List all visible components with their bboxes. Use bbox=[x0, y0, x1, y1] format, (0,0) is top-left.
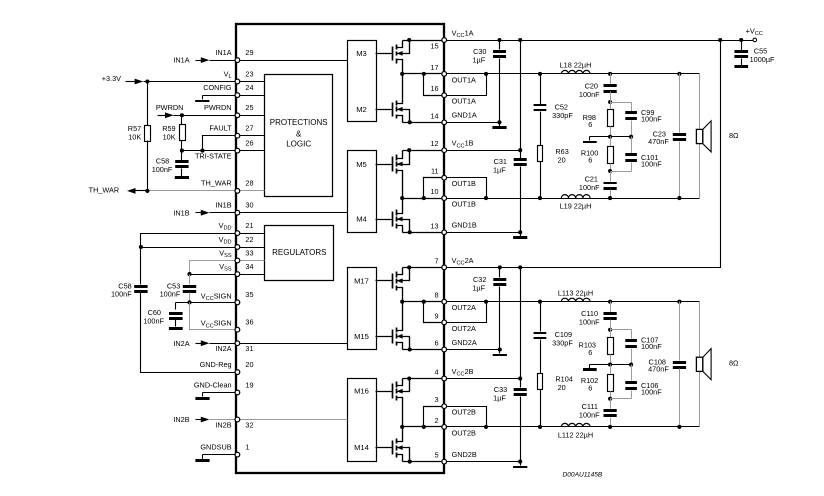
wire VCCSIGN pin36 loop bbox=[190, 303, 238, 330]
resistor R100 6 bbox=[581, 137, 614, 172]
pin 20 GND-Reg bbox=[200, 360, 254, 375]
junction chain upper node ch.1 bbox=[608, 100, 612, 104]
svg-text:GND2A: GND2A bbox=[452, 338, 477, 347]
resistor R59 10K bbox=[162, 116, 185, 151]
ground at Zobel mid node ch.2 bbox=[583, 365, 611, 372]
node IN1B input bbox=[173, 208, 237, 217]
svg-text:CONFIG: CONFIG bbox=[203, 83, 232, 92]
svg-text:IN2B: IN2B bbox=[215, 420, 231, 429]
pin 26 TRI-STATE bbox=[195, 138, 254, 160]
capacitor C23 470nF bbox=[648, 74, 686, 199]
svg-text:19: 19 bbox=[245, 380, 253, 389]
svg-text:PWRDN: PWRDN bbox=[204, 103, 232, 112]
capacitor C31 1µF bbox=[493, 151, 527, 233]
pin 1 GNDSUB bbox=[200, 442, 249, 457]
junction chain bottom OUT1B bbox=[608, 196, 612, 200]
svg-text:31: 31 bbox=[245, 344, 253, 353]
transistor M16 (high side ch.2B) bbox=[376, 376, 412, 426]
pin 27 FAULT bbox=[209, 124, 253, 139]
svg-text:14: 14 bbox=[430, 111, 438, 120]
wire IN2A pin31 to M17/M15 block bbox=[238, 343, 348, 345]
node TH_WAR output bbox=[89, 186, 148, 195]
svg-text:10K: 10K bbox=[128, 133, 141, 142]
speaker 8Ω ch.1 bbox=[696, 74, 739, 199]
junction VCC2A / VCC2B feed bbox=[518, 265, 522, 269]
svg-text:OUT1A: OUT1A bbox=[452, 97, 476, 106]
junction branch mid node ch.2 bbox=[629, 363, 633, 367]
svg-text:35: 35 bbox=[245, 290, 253, 299]
svg-text:IN2A: IN2A bbox=[173, 339, 189, 348]
junction OUT1A / snubber bbox=[538, 72, 542, 76]
svg-text:17: 17 bbox=[430, 63, 438, 72]
svg-text:34: 34 bbox=[245, 262, 253, 271]
pin 17 OUT1A bbox=[430, 63, 476, 84]
junction R59 / TRI-STATE wire bbox=[180, 149, 184, 153]
svg-text:M15: M15 bbox=[354, 332, 369, 341]
svg-text:D00AU1145B: D00AU1145B bbox=[563, 472, 603, 479]
svg-text:6: 6 bbox=[588, 156, 592, 165]
svg-text:REGULATORS: REGULATORS bbox=[272, 248, 326, 257]
svg-text:330pF: 330pF bbox=[552, 111, 573, 120]
svg-text:330pF: 330pF bbox=[552, 339, 573, 348]
svg-text:10: 10 bbox=[430, 187, 438, 196]
wire VDD pin21 loop bbox=[141, 234, 238, 248]
svg-text:4: 4 bbox=[435, 368, 439, 377]
wire OUT1B line bbox=[445, 198, 700, 200]
node IN2A input bbox=[173, 339, 237, 348]
svg-text:13: 13 bbox=[430, 221, 438, 230]
wire external loop pins 3/2 bbox=[445, 407, 487, 427]
junction loop 17/16 bbox=[484, 72, 488, 76]
transistor M4 (low side ch.1B) bbox=[376, 199, 412, 235]
svg-text:100nF: 100nF bbox=[111, 290, 132, 299]
svg-text:IN1A: IN1A bbox=[173, 56, 189, 65]
junction chain bottom OUT2B bbox=[608, 425, 612, 429]
svg-text:8Ω: 8Ω bbox=[729, 131, 739, 140]
svg-text:TRI-STATE: TRI-STATE bbox=[195, 151, 232, 160]
svg-text:3: 3 bbox=[435, 395, 439, 404]
gate driver block M16/M14 bbox=[348, 379, 377, 462]
wire mid node ch.2 bbox=[611, 364, 632, 366]
svg-text:8Ω: 8Ω bbox=[729, 359, 739, 368]
svg-text:23: 23 bbox=[245, 69, 253, 78]
wire VCCSIGN pin35 bbox=[176, 302, 238, 304]
wire VCC1A rail pin15 to +VCC bbox=[445, 40, 755, 42]
svg-text:6: 6 bbox=[588, 383, 592, 392]
resistor R104 20 (snubber) bbox=[538, 340, 573, 427]
wire pin22 VDD to regulators bbox=[238, 247, 265, 249]
pin 4 VCC2B bbox=[435, 367, 474, 381]
wire VCC2B feed bbox=[520, 268, 522, 379]
wire mid node ch.1 bbox=[611, 136, 632, 138]
capacitor C30 1µF bbox=[472, 41, 506, 123]
svg-text:100nF: 100nF bbox=[579, 411, 600, 420]
svg-text:8: 8 bbox=[435, 291, 439, 300]
capacitor C109 330pF (snubber) bbox=[534, 302, 574, 348]
svg-text:21: 21 bbox=[245, 221, 253, 230]
terminal +VCC bbox=[746, 26, 763, 41]
junction C53 / VCCSIGN pin35 bbox=[187, 300, 191, 304]
junction GND2B / C33 bbox=[518, 460, 522, 464]
junction OUT1B / C23 bbox=[677, 196, 681, 200]
junction chain lower node ch.1 bbox=[608, 169, 612, 173]
transistor M15 (low side ch.2A) bbox=[376, 302, 412, 352]
capacitor C32 1µF bbox=[472, 268, 506, 350]
wire GND2A ground stem bbox=[499, 350, 501, 354]
svg-text:OUT2A: OUT2A bbox=[452, 324, 476, 333]
inductor L113 22µH bbox=[558, 288, 593, 301]
junction VCC rail / C55 bbox=[739, 38, 743, 42]
svg-text:11: 11 bbox=[431, 167, 439, 176]
svg-text:6: 6 bbox=[588, 348, 592, 357]
svg-text:100nF: 100nF bbox=[143, 316, 164, 325]
svg-text:GND-Reg: GND-Reg bbox=[200, 360, 232, 369]
svg-text:33: 33 bbox=[245, 248, 253, 257]
ground at GND2A bbox=[493, 354, 507, 356]
svg-text:IN2B: IN2B bbox=[173, 415, 189, 424]
svg-text:OUT1A: OUT1A bbox=[452, 75, 476, 84]
wire VSS pin34 bbox=[190, 274, 238, 276]
resistor R102 6 bbox=[581, 365, 614, 399]
wire pin26 TRI-STATE to logic block bbox=[238, 150, 265, 152]
svg-text:OUT1B: OUT1B bbox=[452, 200, 476, 209]
wire upper node to branch ch.2 bbox=[611, 320, 632, 330]
junction VCC1A / VCC1B feed bbox=[518, 38, 522, 42]
svg-text:25: 25 bbox=[245, 103, 253, 112]
svg-text:GND2B: GND2B bbox=[452, 450, 477, 459]
wire pin25 PWRDN to logic block bbox=[238, 115, 265, 117]
resistor R103 6 bbox=[579, 330, 614, 365]
ground at GND-Clean pin19 bbox=[195, 393, 237, 401]
transistor M2 (low side ch.1A) bbox=[376, 74, 412, 125]
svg-text:IN1A: IN1A bbox=[215, 48, 231, 57]
svg-text:1µF: 1µF bbox=[472, 55, 485, 64]
junction GND1B / C31 bbox=[518, 230, 522, 234]
wire VCC1B pin12 bbox=[445, 150, 521, 152]
capacitor C52 330pF (snubber) bbox=[534, 74, 574, 120]
svg-text:M3: M3 bbox=[356, 49, 367, 58]
junction FAULT/TRI-STATE bbox=[200, 149, 204, 153]
gate driver block M5/M4 bbox=[348, 151, 377, 233]
junction GND2A / C32 bbox=[498, 347, 502, 351]
wire external loop pins 11/10 bbox=[445, 178, 487, 199]
ground at GND1A bbox=[492, 126, 506, 129]
svg-text:100nF: 100nF bbox=[641, 387, 662, 396]
ground at Zobel mid node ch.1 bbox=[583, 137, 611, 144]
resistor R63 20 (snubber) bbox=[538, 112, 569, 199]
svg-text:IN1B: IN1B bbox=[173, 208, 189, 217]
svg-text:L113 22µH: L113 22µH bbox=[558, 288, 593, 297]
pin 14 GND1A bbox=[430, 111, 476, 125]
pin 6 GND2A bbox=[435, 338, 477, 352]
svg-text:22: 22 bbox=[245, 235, 253, 244]
transistor M14 (low side ch.2B) bbox=[376, 427, 412, 464]
pin 34 VSS bbox=[219, 262, 253, 277]
internal wires half-bridge 2A (node 8/9) bbox=[400, 268, 444, 350]
svg-text:PWRDN: PWRDN bbox=[156, 103, 184, 112]
svg-text:OUT2B: OUT2B bbox=[452, 428, 476, 437]
svg-text:LOGIC: LOGIC bbox=[286, 140, 311, 149]
wire pin23 VL to logic block bbox=[238, 81, 265, 83]
svg-text:16: 16 bbox=[430, 84, 438, 93]
junction chain upper node ch.2 bbox=[608, 328, 612, 332]
svg-text:M2: M2 bbox=[356, 105, 367, 114]
wire TH_WAR to pin28 bbox=[148, 190, 238, 192]
wire GND1A pin14 to ground bbox=[445, 122, 500, 124]
transistor M3 (high side ch.1A) bbox=[376, 38, 412, 74]
wire GND2B pin5 to ground bbox=[445, 461, 521, 463]
svg-text:6: 6 bbox=[588, 120, 592, 129]
svg-text:100nF: 100nF bbox=[579, 318, 600, 327]
pin 36 VCCSIGN bbox=[201, 318, 254, 333]
pin 16 OUT1A bbox=[430, 84, 476, 105]
svg-text:L19 22µH: L19 22µH bbox=[560, 202, 592, 211]
capacitor C60 100nF bbox=[143, 303, 182, 331]
capacitor C107 100nF (branch upper) bbox=[625, 330, 662, 365]
svg-text:20: 20 bbox=[245, 360, 253, 369]
wire OUT1A line bbox=[445, 73, 700, 75]
wire C58 to GND-Reg pin20 bbox=[141, 293, 238, 373]
pin 35 VCCSIGN bbox=[201, 290, 254, 305]
pin 33 VSS bbox=[219, 248, 253, 263]
svg-text:5: 5 bbox=[435, 451, 439, 460]
svg-text:27: 27 bbox=[245, 124, 253, 133]
wire TRI-STATE node to pin26 bbox=[182, 150, 238, 152]
transistor M5 (high side ch.1B) bbox=[376, 148, 412, 198]
svg-text:24: 24 bbox=[245, 83, 253, 92]
junction OUT1A / C23 bbox=[677, 72, 681, 76]
pin 22 VDD bbox=[219, 235, 254, 250]
svg-text:M16: M16 bbox=[354, 386, 369, 395]
svg-text:100nF: 100nF bbox=[641, 342, 662, 351]
svg-text:GND-Clean: GND-Clean bbox=[194, 380, 232, 389]
inductor L18 22µH bbox=[560, 61, 592, 74]
svg-text:20: 20 bbox=[558, 155, 566, 164]
svg-text:12: 12 bbox=[430, 139, 438, 148]
pin 28 TH_WAR bbox=[201, 179, 253, 194]
svg-text:M14: M14 bbox=[354, 443, 369, 452]
svg-text:1µF: 1µF bbox=[493, 166, 506, 175]
inductor L19 22µH bbox=[560, 195, 592, 211]
capacitor C111 100nF bbox=[579, 399, 617, 427]
junction chain mid node ch.2 bbox=[608, 363, 612, 367]
pin 11 OUT1B bbox=[431, 167, 476, 188]
resistor R98 6 bbox=[583, 103, 614, 137]
pin 29 IN1A bbox=[215, 48, 253, 63]
svg-text:26: 26 bbox=[245, 138, 253, 147]
REGULATORS block bbox=[265, 226, 334, 281]
wire GND2B ground stem bbox=[520, 462, 522, 466]
svg-text:IN1B: IN1B bbox=[215, 201, 231, 210]
junction OUT2B / C108 bbox=[677, 425, 681, 429]
svg-text:100nF: 100nF bbox=[152, 165, 173, 174]
svg-text:1µF: 1µF bbox=[493, 394, 506, 403]
junction VDD pins 21/22 bbox=[139, 245, 143, 249]
pin 32 IN2B bbox=[215, 417, 253, 429]
svg-text:100nF: 100nF bbox=[579, 183, 600, 192]
wire pin24 CONFIG to logic block bbox=[238, 95, 265, 97]
wire lower node to branch ch.2 bbox=[611, 398, 632, 400]
junction VSS pins 33/34 bbox=[187, 272, 191, 276]
pin 3 OUT2B bbox=[435, 395, 477, 416]
svg-text:OUT2B: OUT2B bbox=[452, 408, 476, 417]
junction R57 / TH_WAR bbox=[145, 189, 149, 193]
junction OUT2B / snubber bbox=[538, 425, 542, 429]
ground at GND1B bbox=[513, 236, 527, 239]
wire pin33 VSS to regulators bbox=[238, 260, 265, 262]
svg-text:M4: M4 bbox=[356, 214, 367, 223]
pin 24 CONFIG bbox=[203, 83, 253, 98]
wire upper node to branch ch.1 bbox=[611, 92, 632, 103]
pin 30 IN1B bbox=[215, 201, 253, 216]
svg-text:GND1A: GND1A bbox=[452, 111, 477, 120]
wire GND1B pin13 to ground bbox=[445, 232, 521, 234]
svg-text:GND1B: GND1B bbox=[452, 221, 477, 230]
internal wires half-bridge 1B (node 11/10) bbox=[400, 151, 444, 233]
junction chain top OUT1A bbox=[608, 72, 612, 76]
svg-text:FAULT: FAULT bbox=[209, 124, 232, 133]
svg-text:100nF: 100nF bbox=[160, 290, 181, 299]
gate driver block M17/M15 bbox=[348, 268, 377, 350]
pin 7 VCC2A bbox=[435, 256, 474, 270]
svg-text:TH_WAR: TH_WAR bbox=[89, 186, 120, 195]
junction chain lower node ch.2 bbox=[608, 397, 612, 401]
junction VCC2B / C33 bbox=[518, 376, 522, 380]
svg-text:20: 20 bbox=[558, 383, 566, 392]
wire IN1B pin30 to M5/M4 block bbox=[238, 212, 348, 214]
wire IN2B pin32 to M16/M14 block bbox=[238, 419, 348, 421]
PROTECTIONS & LOGIC block bbox=[265, 75, 333, 197]
svg-text:2: 2 bbox=[435, 416, 439, 425]
wire FAULT pin27 to TRI-STATE node bbox=[203, 136, 238, 151]
junction VCC rail / ch.2 feed bbox=[718, 38, 722, 42]
ground at GNDSUB pin1 bbox=[195, 455, 237, 463]
junction +3.3V / R57 bbox=[145, 79, 149, 83]
junction OUT2A / snubber bbox=[538, 300, 542, 304]
capacitor C21 100nF bbox=[579, 172, 617, 199]
pin 13 GND1B bbox=[430, 221, 476, 235]
svg-text:6: 6 bbox=[435, 339, 439, 348]
capacitor C58 100nF (VDD) bbox=[111, 248, 148, 299]
junction VCC1A / C30 bbox=[497, 38, 501, 42]
wire pin34 VSS to regulators bbox=[238, 274, 265, 276]
capacitor C108 470nF bbox=[648, 302, 686, 427]
IC body outline bbox=[236, 24, 444, 473]
node IN2B input bbox=[173, 415, 237, 424]
svg-text:100nF: 100nF bbox=[641, 114, 662, 123]
wire OUT2A line bbox=[445, 301, 700, 303]
pin 10 OUT1B bbox=[430, 187, 476, 208]
wire lower node to branch ch.1 bbox=[611, 171, 632, 173]
inductor L112 22µH bbox=[558, 423, 593, 439]
pin 9 OUT2A bbox=[435, 311, 477, 332]
wire OUT2B line bbox=[445, 426, 700, 428]
wire IN1A pin29 to M3/M2 block bbox=[238, 60, 348, 62]
wire pin28 TH_WAR to logic block bbox=[238, 190, 265, 192]
svg-text:IN2A: IN2A bbox=[215, 344, 231, 353]
junction loop 8/9 bbox=[484, 300, 488, 304]
svg-text:7: 7 bbox=[435, 256, 439, 265]
wire GND2A pin6 to ground bbox=[445, 349, 500, 351]
svg-text:9: 9 bbox=[435, 311, 439, 320]
junction GND1A / C30 bbox=[497, 120, 501, 124]
svg-text:L18 22µH: L18 22µH bbox=[560, 61, 592, 70]
junction loop 11/10 bbox=[484, 196, 488, 200]
pin 31 IN2A bbox=[215, 341, 253, 353]
svg-text:OUT2A: OUT2A bbox=[452, 303, 476, 312]
junction chain top OUT2A bbox=[608, 300, 612, 304]
junction VCC1B / C31 bbox=[518, 148, 522, 152]
transistor M17 (high side ch.2A) bbox=[376, 265, 412, 301]
wire VSS pin33 loop bbox=[190, 261, 238, 275]
pin 12 VCC1B bbox=[430, 139, 473, 153]
resistor R57 10K pull-up bbox=[128, 82, 151, 191]
ground at GND2B bbox=[513, 466, 527, 468]
svg-text:30: 30 bbox=[245, 201, 253, 210]
svg-text:28: 28 bbox=[245, 179, 253, 188]
svg-text:1: 1 bbox=[245, 442, 249, 451]
wire GND1A ground stem bbox=[499, 123, 501, 127]
pin 8 OUT2A bbox=[435, 291, 477, 312]
svg-text:470nF: 470nF bbox=[648, 365, 669, 374]
svg-text:15: 15 bbox=[430, 41, 438, 50]
wire pin21 VDD to regulators bbox=[238, 233, 265, 235]
node PWRDN input bbox=[156, 103, 238, 118]
capacitor C53 100nF bbox=[160, 275, 197, 303]
junction OUT1B / snubber bbox=[538, 196, 542, 200]
pin 2 OUT2B bbox=[435, 416, 477, 437]
svg-text:36: 36 bbox=[245, 318, 253, 327]
speaker 8Ω ch.2 bbox=[696, 302, 739, 427]
capacitor C55 1000µF bbox=[734, 41, 775, 69]
junction OUT2A / C108 bbox=[677, 300, 681, 304]
wire external loop pins 17/16 bbox=[445, 74, 487, 96]
capacitor C110 100nF bbox=[579, 302, 617, 327]
svg-text:M5: M5 bbox=[356, 160, 367, 169]
wire VCC2B pin4 bbox=[445, 378, 521, 380]
junction loop 3/2 bbox=[484, 425, 488, 429]
node IN1A input bbox=[173, 56, 237, 65]
pin 25 PWRDN bbox=[204, 103, 254, 118]
ground at CONFIG pin24 bbox=[195, 96, 237, 103]
pin 15 VCC1A bbox=[430, 28, 473, 50]
svg-text:GNDSUB: GNDSUB bbox=[200, 442, 231, 451]
internal wires half-bridge 1A (node 17/16) bbox=[400, 41, 444, 123]
svg-text:1µF: 1µF bbox=[472, 284, 485, 293]
svg-text:TH_WAR: TH_WAR bbox=[201, 179, 232, 188]
wire GND1B ground stem bbox=[520, 233, 522, 237]
wire VDD pin22 bbox=[141, 247, 238, 249]
wire external loop pins 8/9 bbox=[445, 302, 487, 323]
pin 23 VL bbox=[224, 69, 254, 84]
svg-text:32: 32 bbox=[245, 420, 253, 429]
junction PWRDN / R59 bbox=[180, 113, 184, 117]
svg-text:L112 22µH: L112 22µH bbox=[558, 431, 593, 440]
junction VCC2A / C32 bbox=[498, 265, 502, 269]
wire pin27 FAULT to logic block bbox=[238, 135, 265, 137]
pin 21 VDD bbox=[219, 221, 254, 236]
capacitor C58 100nF (tri-state) bbox=[152, 151, 189, 180]
pin 19 GND-Clean bbox=[194, 380, 254, 395]
svg-text:+3.3V: +3.3V bbox=[102, 74, 121, 83]
wire VCC1B feed bbox=[520, 41, 522, 151]
capacitor C106 100nF (branch lower) bbox=[625, 365, 662, 399]
capacitor C20 100nF bbox=[579, 74, 617, 99]
svg-text:29: 29 bbox=[245, 48, 253, 57]
svg-text:PROTECTIONS: PROTECTIONS bbox=[270, 118, 328, 127]
svg-text:470nF: 470nF bbox=[648, 137, 669, 146]
capacitor C101 100nF (branch lower) bbox=[625, 137, 662, 172]
